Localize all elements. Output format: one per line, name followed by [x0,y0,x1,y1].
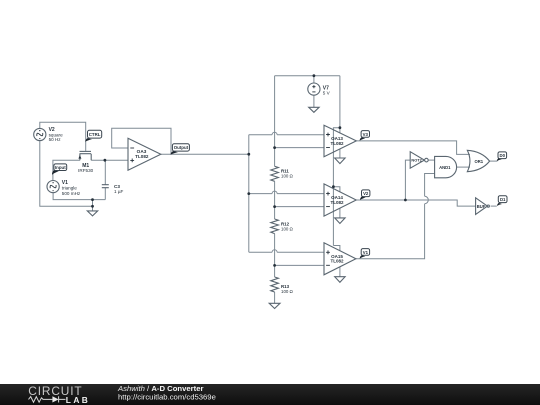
wire V2 bottom return to ground [40,141,93,207]
node dots supply trunk [332,126,341,188]
wire ground stem left [92,200,94,211]
wire C3 leads [104,160,106,199]
flag D0 [497,152,507,161]
wire signal vertical bus [248,135,250,253]
svg-text:V2: V2 [363,191,369,196]
node dot rail at V7 [313,74,316,77]
wire OA13 Vminus stub to ground [339,149,341,158]
gate BUF [476,198,490,215]
wire OA14 Vminus stub to ground [339,208,341,218]
svg-text:100 Ω: 100 Ω [281,174,294,179]
svg-text:TL082: TL082 [330,259,344,264]
svg-text:NOT2: NOT2 [411,158,422,163]
label R12 [281,222,294,232]
svg-text:D0: D0 [500,153,506,158]
flag Output [171,144,190,155]
label M1 [78,163,94,173]
svg-text:Input: Input [55,165,66,170]
node dots ladder taps [273,146,276,267]
wire V1 bottom to C3 bottom [53,193,105,200]
svg-text:AND1: AND1 [439,165,451,170]
wire OR1 output to D0 [490,160,498,162]
gate OR1 [467,150,489,171]
svg-text:100 Ω: 100 Ω [281,227,294,232]
resistor R12 [271,219,279,234]
wire OA3 output to signal node [161,153,249,155]
svg-text:V3: V3 [363,132,369,137]
node dot V2 net at NOT2 tap [404,199,407,202]
op-amp OA15 [324,243,356,275]
wire M1 drain to OA3 plus input [91,159,128,161]
node dots on signal bus [247,153,250,195]
wire OA14 output to BUF input [356,200,475,206]
logo CIRCUIT LAB [28,384,90,405]
wire V7 leads [313,76,315,108]
ground left [87,211,97,216]
wire OA13 output to OR1 top input [356,141,470,155]
svg-text:http://circuitlab.com/cd5369e: http://circuitlab.com/cd5369e [118,393,216,402]
ground V7 [309,107,319,112]
svg-text:IRF530: IRF530 [78,168,94,173]
wire supply trunk from rail to op-amp V+ pins [333,76,340,251]
wire ladder tap to OA15 minus [275,264,324,266]
wire ladder vertical segments [274,76,276,304]
flag Input [52,164,67,175]
svg-text:5 V: 5 V [323,91,331,96]
voltage source V7 [308,83,320,95]
gate NOT2 [410,152,428,169]
flag V3 [360,131,370,141]
op-amp OA3 [128,138,161,170]
footer bar [0,384,540,405]
svg-text:500 mHz: 500 mHz [62,191,81,196]
svg-text:LAB: LAB [66,395,90,405]
label R11 [281,169,294,179]
svg-text:OR1: OR1 [474,159,483,164]
resistor R13 [271,277,279,292]
wire OA15 Vminus stub to ground [339,267,341,277]
wire top 5V rail [275,75,340,77]
svg-text:D1: D1 [500,197,506,202]
op-amp OA14 [324,184,356,216]
ground OA15 [335,277,345,283]
flag D1 [497,196,507,206]
flag CTRL [85,130,101,141]
footer title text [117,384,216,402]
wire NOT2 input from V2 net [405,160,410,200]
ground OA13 [335,158,345,164]
resistor R11 [271,166,279,181]
svg-text:BUF: BUF [477,204,486,209]
label C3 [114,184,123,194]
node junction dots left [91,159,106,208]
wire OA15 output up to AND1 second input with hop [356,174,435,259]
svg-text:100 Ω: 100 Ω [281,289,294,294]
svg-text:V1: V1 [363,250,369,255]
label V1 value [62,180,81,196]
svg-text:Output: Output [174,145,189,150]
transistor M1 [78,151,91,160]
capacitor C3 [102,185,109,188]
wire NOT2 output to AND1 [428,159,434,161]
wire ladder tap to OA13 minus [275,147,324,149]
gate AND1 [435,156,457,177]
svg-text:TL082: TL082 [135,154,149,159]
svg-text:CTRL: CTRL [89,132,101,137]
voltage source V1 [47,181,59,193]
flag V2 [360,190,370,200]
wire signal branch to OA14 plus with hop [249,191,324,194]
wire OA3 feedback loop [112,128,171,154]
wire ladder tap to OA14 minus [275,206,324,208]
label R13 [281,284,294,294]
wire V2 top to M1 gate [40,122,86,151]
ground ladder bottom [269,303,280,308]
wire signal branch to OA15 plus with hop [249,250,324,253]
ground OA14 [335,218,345,224]
wire BUF output to D1 [491,205,497,207]
wire signal branch to OA13 plus with hop [249,132,324,135]
voltage source V2 [34,128,46,140]
svg-text:1 µF: 1 µF [114,189,123,194]
svg-text:TL082: TL082 [330,200,344,205]
svg-text:50 Hz: 50 Hz [49,137,62,142]
label V2 value [49,127,63,142]
wire source of M1 to Input corner and V1 [53,160,80,180]
flag V1 [360,249,370,259]
svg-text:TL082: TL082 [330,141,344,146]
label V7 value [323,86,331,96]
wire AND1 output to OR1 [457,166,470,168]
op-amp OA13 [324,125,356,157]
